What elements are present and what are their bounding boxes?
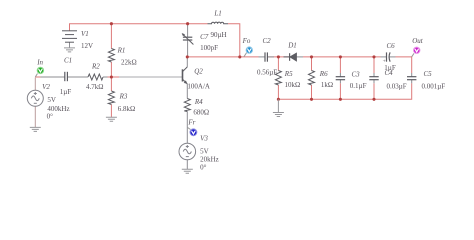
svg-text:1µF: 1µF [384,64,396,72]
svg-text:C1: C1 [64,56,72,64]
svg-text:R2: R2 [91,62,100,70]
svg-text:1kΩ: 1kΩ [321,81,333,89]
svg-text:Fr: Fr [187,119,195,127]
svg-text:R5: R5 [284,70,293,78]
svg-text:V2: V2 [42,83,50,91]
svg-text:10kΩ: 10kΩ [285,81,301,89]
svg-text:V3: V3 [200,135,208,143]
svg-text:C5: C5 [424,70,433,78]
svg-text:22kΩ: 22kΩ [121,59,137,67]
svg-text:1µF: 1µF [60,88,72,96]
svg-text:C6: C6 [387,42,396,50]
svg-text:C7: C7 [200,33,209,41]
svg-text:D1: D1 [287,42,297,50]
svg-text:R1: R1 [117,46,126,54]
svg-text:0.56µF: 0.56µF [257,69,277,77]
svg-text:Fo: Fo [242,37,251,45]
svg-text:90µH: 90µH [211,31,227,39]
svg-text:C3: C3 [352,70,361,78]
svg-text:12V: 12V [81,42,93,50]
svg-text:R3: R3 [119,92,128,100]
svg-text:0.1µF: 0.1µF [350,82,367,90]
svg-text:6.8kΩ: 6.8kΩ [118,105,135,113]
svg-text:20kHz: 20kHz [200,155,219,163]
svg-text:0.03µF: 0.03µF [387,83,407,91]
svg-text:5V: 5V [47,96,56,104]
svg-text:L1: L1 [213,9,221,17]
svg-text:0.001µF: 0.001µF [422,83,446,91]
svg-text:Out: Out [412,37,424,45]
svg-text:4.7kΩ: 4.7kΩ [86,83,103,91]
svg-text:5V: 5V [200,147,209,155]
svg-text:680Ω: 680Ω [193,108,209,116]
svg-text:100A/A: 100A/A [187,83,210,91]
svg-text:0°: 0° [200,163,207,171]
svg-text:Q2: Q2 [194,67,203,75]
svg-text:C2: C2 [263,37,272,45]
svg-text:R4: R4 [194,98,203,106]
svg-text:V1: V1 [81,30,89,38]
svg-text:0°: 0° [47,112,54,120]
svg-text:R6: R6 [319,70,328,78]
svg-text:In: In [36,59,43,67]
svg-text:100pF: 100pF [200,44,218,52]
